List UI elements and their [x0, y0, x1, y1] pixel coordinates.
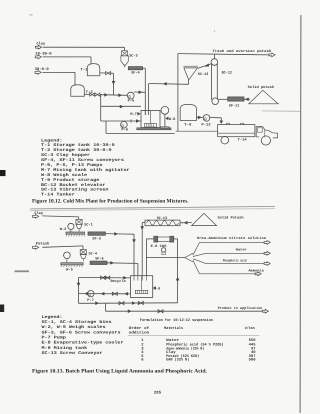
legend block figure 10.12: [41, 138, 130, 197]
svg-text:Clay: Clay: [37, 42, 46, 47]
wire line to P-6: [101, 120, 141, 122]
flow arrow into M-7 lower inlet: [136, 120, 139, 123]
flow arrow into P-5: [119, 94, 122, 97]
svg-text:T-14 Tanker: T-14 Tanker: [41, 193, 75, 198]
page number 285: [154, 391, 162, 396]
flow arrow on recycle: [124, 276, 127, 279]
valve 2 on T-2 outlet: [95, 93, 100, 96]
tanker T-14 manholes: [226, 123, 244, 124]
label BC-12: [222, 70, 232, 75]
svg-text:SF-4: SF-4: [131, 70, 140, 75]
feed arrow 30-0-0: [35, 71, 41, 75]
svg-text:SF-3: SF-3: [92, 237, 101, 242]
label SF-4: [131, 70, 140, 75]
pump P-7: [88, 291, 94, 297]
feed arrow Potash: [33, 246, 39, 250]
rule line between figures (lower): [30, 209, 275, 211]
tanker T-14 front wheel: [261, 136, 270, 145]
label SC-4: [89, 252, 98, 257]
label T-14: [238, 138, 248, 143]
wire SF-6 discharge: [107, 262, 138, 265]
flow arrow on chute: [205, 64, 209, 67]
feed arrow UAN: [264, 241, 270, 245]
caption figure 10.12: [32, 199, 189, 205]
flow arrow from M-9 on suction: [101, 292, 104, 295]
hopper SC-3: [121, 51, 128, 67]
wire Water feed line: [193, 253, 264, 256]
cooling water pump symbol: [161, 248, 165, 255]
label Product to application: [218, 306, 263, 311]
solid potash pile (fig 10.12): [249, 90, 278, 104]
svg-text:T-9: T-9: [184, 123, 191, 128]
mixing tank M-7: [141, 110, 160, 127]
svg-text:Phosphoric acid: Phosphoric acid: [223, 258, 247, 263]
svg-text:SC-3 Clay hopper: SC-3 Clay hopper: [41, 153, 91, 158]
flow arrow 2 on bottom line: [132, 302, 135, 305]
label T-2: [86, 90, 94, 95]
label T-1: [80, 67, 88, 72]
svg-text:P-5: P-5: [128, 99, 135, 104]
flow arrow on bottom line: [96, 302, 99, 305]
node 30-0-0 feed label: [35, 67, 50, 72]
label Ammonia: [249, 269, 264, 274]
wire E-8 left pipe down to M-9: [146, 239, 153, 276]
wire screen underflow line: [149, 83, 189, 86]
label E-8 CWS: [151, 244, 167, 249]
label P-7: [87, 298, 94, 303]
svg-text:SF-3, SF-6 Screw conveyors: SF-3, SF-6 Screw conveyors: [42, 330, 122, 335]
wire potash pile to SF-11: [244, 98, 250, 100]
flow arrow T-9 outlet: [198, 116, 201, 119]
valve on P-7 suction: [112, 292, 117, 295]
wire T-1 outlet: [100, 72, 106, 74]
evaporative cooler E-8: [154, 236, 174, 242]
wire 30-0-0 feed line: [42, 72, 75, 85]
feed arrow Phosphoric acid: [264, 262, 270, 266]
wire SC-13 to downpipe: [142, 223, 145, 276]
valve 1 on T-2 outlet: [90, 93, 95, 96]
svg-text:Order of: Order of: [129, 326, 150, 331]
svg-text:SC-1: SC-1: [84, 222, 93, 227]
page edge line (right): [299, 15, 302, 413]
svg-text:P-7: P-7: [87, 298, 94, 303]
weigh scale W-8 dial: [161, 106, 169, 114]
pump P-6: [121, 121, 128, 128]
feed pipes into M-9 interior: [134, 276, 146, 281]
wire screen vertex drop: [188, 80, 190, 84]
flow arrow on product line: [128, 310, 131, 313]
svg-text:SC-4: SC-4: [89, 252, 98, 257]
label SC-13 (fig 10.13): [157, 216, 167, 221]
svg-text:SC-13 Vibrating screen: SC-13 Vibrating screen: [41, 188, 109, 193]
faint bleed line right: [262, 110, 300, 112]
flow arrow down T-1 drop: [112, 81, 115, 84]
label Water: [236, 247, 247, 252]
pump P-5: [127, 92, 134, 99]
bucket elevator BC-12 belt: [212, 64, 218, 100]
label Urea-Ammonium nitrate solution: [197, 236, 266, 241]
wire SF-3 discharge: [105, 233, 134, 236]
svg-text:Trash and oversize potash: Trash and oversize potash: [212, 49, 271, 54]
flow arrow down recycle riser: [77, 283, 80, 286]
node Clay feed label (fig 10.13): [34, 211, 43, 216]
svg-text:T-1 Storage tank 10-30-0: T-1 Storage tank 10-30-0: [41, 143, 115, 148]
label SF-6: [95, 257, 104, 262]
label SC-3: [129, 53, 138, 58]
storage bin SC-4: [80, 250, 86, 262]
wire E-8 right pipe riser: [174, 239, 178, 303]
feed pipe into M-7 from screen return: [148, 84, 150, 115]
wire SF-11 to elevator boot: [219, 98, 228, 100]
svg-text:P-7 Pump: P-7 Pump: [42, 336, 67, 341]
agitator impeller M-7: [145, 123, 157, 127]
tanker T-14 cab and hood: [256, 127, 277, 138]
wire SC-13 feed from pile: [180, 222, 192, 224]
scan dash left of W-5: [15, 270, 30, 272]
svg-text:E-8 CWS: E-8 CWS: [151, 244, 167, 249]
svg-text:Water: Water: [236, 247, 247, 252]
svg-text:M-7 Mixing tank with agitator: M-7 Mixing tank with agitator: [41, 168, 130, 173]
flow arrow into SF-11: [246, 98, 249, 101]
wire product takeoff: [106, 303, 263, 311]
label Solid Potash (fig 10.13): [218, 215, 244, 220]
svg-text:Solid Potash: Solid Potash: [218, 215, 244, 220]
label W-8: [166, 117, 176, 122]
bucket elevator BC-12 top pulley: [211, 54, 218, 65]
svg-text:Recycle: Recycle: [111, 279, 126, 284]
svg-text:W-8: W-8: [169, 117, 176, 122]
svg-text:Solid potash: Solid potash: [248, 85, 274, 90]
svg-text:Potash: Potash: [36, 242, 50, 247]
tanker T-14 rear wheel: [221, 136, 229, 144]
svg-text:E-8 Evaporative-type cooler: E-8 Evaporative-type cooler: [42, 341, 125, 346]
valve on product line: [158, 310, 163, 313]
svg-text:UAN (32% N): UAN (32% N): [166, 358, 189, 363]
svg-text:Product to application: Product to application: [218, 306, 263, 311]
wire P-6 drain loop: [106, 121, 175, 133]
wire branch down from T-2 line: [100, 95, 102, 121]
node Clay feed label (fig 10.12): [37, 42, 46, 47]
wire T-2 outlet: [84, 93, 89, 95]
svg-text:Legend:: Legend:: [42, 315, 63, 320]
svg-text:P-6: P-6: [121, 128, 128, 133]
platform under M-7 (weigh platform): [137, 128, 171, 130]
feed arrow Clay: [35, 45, 41, 49]
feed arrow Product out: [262, 309, 268, 313]
svg-text:T-9 Product storage: T-9 Product storage: [41, 178, 100, 183]
label SF-11: [229, 103, 239, 108]
ground line under T-9 and P-13: [176, 130, 218, 132]
flow arrow up riser: [176, 277, 179, 280]
svg-text:30-0-0: 30-0-0: [35, 67, 50, 72]
feed arrow trash out: [269, 53, 275, 57]
svg-text:SF-11: SF-11: [229, 103, 239, 108]
wire Phosphoric acid feed line: [193, 259, 264, 264]
scan mark left edge upper: [0, 170, 6, 176]
vibrating screen SC-13 (fig 10.12): [184, 66, 198, 80]
screw conveyor SF-3: [88, 232, 105, 235]
svg-text:SC-13 Screw Conveyor: SC-13 Screw Conveyor: [42, 351, 104, 356]
solid potash pile (fig 10.13): [192, 213, 217, 225]
valve 2 on bottom line: [138, 301, 143, 304]
svg-text:Legend:: Legend:: [41, 138, 63, 143]
flow arrow toward riser: [85, 292, 88, 295]
flow arrow into SC-13: [184, 221, 187, 224]
bucket elevator BC-12 boot pulley: [212, 98, 219, 105]
tanker T-14 tank body: [218, 125, 255, 137]
label Solid potash (fig 10.12): [248, 85, 274, 90]
wire potash downpipe to M-9: [137, 263, 139, 276]
mixing manifold line to M-9: [146, 257, 184, 259]
label M-7: [130, 112, 140, 117]
label M-9: [153, 286, 160, 291]
weigh scale W-5: [64, 252, 71, 263]
wire T-1 outlet to drop: [111, 73, 114, 95]
flow arrow on SF-3 discharge: [115, 232, 118, 235]
flow arrow into M-9 left: [125, 292, 128, 295]
flow arrow on M-7 upper inlet: [120, 105, 123, 108]
wire SF-4 discharge to M-7 downpipe: [143, 68, 146, 115]
svg-text:M-7: M-7: [130, 112, 137, 117]
label Recycle: [111, 279, 126, 284]
wire Ammonia feed line: [193, 260, 255, 273]
tank T-2: [71, 85, 85, 97]
flow arrow P-5 discharge: [139, 91, 142, 94]
svg-text:addition: addition: [129, 331, 150, 336]
tank T-9 product storage: [180, 104, 196, 120]
wire potash feed line: [42, 246, 83, 250]
scan mark left edge lower: [0, 305, 4, 313]
storage bin SC-1: [76, 219, 82, 231]
platform under SC-4 (hatched base): [61, 263, 83, 267]
flow arrow into tanker: [220, 121, 223, 124]
flow arrow on T-2 line: [105, 93, 108, 96]
svg-text:BC-12: BC-12: [222, 70, 232, 75]
svg-text:BC-12 Bucket elevator: BC-12 Bucket elevator: [41, 183, 106, 188]
label W-2: [60, 227, 67, 232]
label P-6: [121, 128, 128, 133]
screw conveyor SC-13: [145, 220, 180, 226]
legend block figure 10.13: [42, 315, 125, 356]
agitator impeller M-9: [135, 290, 148, 293]
mixing manifold arrowhead: [185, 253, 193, 262]
wire recycle line: [79, 277, 131, 279]
wire P-5 discharge: [134, 91, 145, 93]
valve 2 on recycle: [105, 276, 109, 279]
wire T-9 outlet: [196, 116, 203, 118]
svg-text:Figure 10.12. Cold Mix Plant f: Figure 10.12. Cold Mix Plant for Product…: [32, 199, 189, 205]
wire recycle riser: [78, 278, 80, 304]
wire clay downpipe to M-9: [133, 234, 135, 276]
flow arrow down clay pipe: [133, 240, 136, 243]
svg-text:W-5: W-5: [66, 267, 73, 272]
label T-9: [184, 123, 191, 128]
svg-text:W-2: W-2: [60, 227, 67, 232]
label P-5: [128, 99, 135, 104]
label W-5: [66, 267, 73, 272]
node 10-30-0 feed label: [35, 51, 52, 56]
weigh scale W-8 base: [160, 127, 169, 129]
svg-text:285: 285: [154, 391, 162, 396]
svg-text:500: 500: [249, 358, 257, 363]
wire P-7 suction line: [79, 293, 131, 295]
valve 1 on recycle: [101, 276, 105, 279]
flow arrow down SC-13 downpipe: [141, 227, 144, 230]
screw conveyor SF-11: [228, 97, 244, 101]
svg-text:Materials: Materials: [164, 326, 184, 331]
wire M-9 bottom outlet line: [79, 302, 178, 305]
svg-text:T-2 Storage tank 30-0-0: T-2 Storage tank 30-0-0: [41, 148, 112, 153]
weigh scale W-2: [68, 223, 74, 232]
caption figure 10.13: [32, 368, 208, 374]
flow arrow on screen underflow: [164, 82, 167, 85]
svg-text:T-14: T-14: [238, 138, 248, 143]
flow arrow on SF-6 discharge: [111, 261, 114, 264]
wire P-13 to tanker: [210, 118, 222, 124]
wire 10-30-0 feed line: [43, 57, 91, 64]
svg-text:SF-6: SF-6: [95, 257, 104, 262]
pump P-13: [203, 115, 210, 122]
rule line between figures (upper): [30, 206, 275, 209]
label SC-13 (fig 10.12): [198, 72, 208, 77]
valve 1 on bottom line: [119, 302, 124, 305]
svg-text:Urea-Ammonium nitrate solution: Urea-Ammonium nitrate solution: [197, 236, 266, 241]
junction right of P-6: [130, 119, 132, 122]
feed pipe into M-7 from SF-4: [144, 111, 146, 115]
svg-text:SC-3: SC-3: [129, 53, 138, 58]
platform under SC-1 (hatched base): [66, 232, 85, 236]
svg-text:SF-4, SF-11 Screw conveyors: SF-4, SF-11 Screw conveyors: [41, 158, 125, 163]
svg-text:W-8 Weigh scale: W-8 Weigh scale: [41, 173, 88, 178]
wire UAN feed line: [193, 242, 264, 255]
weigh scale W-8 stem: [164, 114, 166, 127]
svg-text:#/ton: #/ton: [245, 326, 255, 331]
tank T-1: [87, 64, 100, 76]
svg-text:T-1: T-1: [80, 67, 88, 72]
screw conveyor SF-4: [128, 67, 142, 70]
scan speck top left: [30, 14, 33, 16]
label SF-3: [92, 237, 101, 242]
svg-text:P-5, P-6, P-13 Pumps: P-5, P-6, P-13 Pumps: [41, 163, 103, 168]
formulation table: [128, 318, 260, 362]
label Phosphoric acid: [223, 258, 247, 263]
svg-text:Figure 10.13. Batch Plant Usin: Figure 10.13. Batch Plant Using Liquid A…: [32, 368, 208, 374]
wire line to M-7 upper inlet: [101, 105, 141, 107]
feed arrow Clay (fig 10.13): [33, 215, 39, 219]
node Potash feed label: [36, 242, 50, 247]
agitator shaft M-7: [150, 110, 152, 123]
label SC-1: [84, 222, 93, 227]
label Trash and oversize potash: [212, 49, 271, 54]
scan speck mid: [214, 30, 215, 31]
screw conveyor SF-6: [90, 261, 107, 264]
svg-text:SC-13: SC-13: [198, 72, 208, 77]
svg-text:SC-1, SC-4 Storage bins: SC-1, SC-4 Storage bins: [42, 320, 113, 325]
wire clay feed line (fig 10.13): [42, 216, 78, 220]
valve on T-1 outlet: [106, 72, 111, 75]
mixing tank M-9: [131, 276, 153, 298]
svg-text:Formulation for 10-12-12 suspe: Formulation for 10-12-12 suspension: [140, 318, 214, 323]
label P-13: [202, 123, 211, 128]
wire T-2 outlet run to P-5: [100, 94, 128, 97]
svg-text:W-2, W-5 Weigh scales: W-2, W-5 Weigh scales: [42, 325, 107, 330]
svg-text:P-13: P-13: [202, 123, 211, 128]
feed arrow Water: [264, 251, 270, 255]
wire chute BC-12 to screen: [198, 64, 211, 68]
wire clay feed line: [43, 47, 125, 51]
svg-text:M-9 Mixing tank: M-9 Mixing tank: [42, 346, 88, 351]
feed arrow Ammonia: [255, 272, 261, 276]
wire trash and oversize line: [178, 54, 269, 55]
wire trash riser / product downpipe: [177, 54, 179, 132]
feed arrow 10-30-0: [35, 55, 41, 59]
agitator shaft M-9: [141, 276, 143, 291]
